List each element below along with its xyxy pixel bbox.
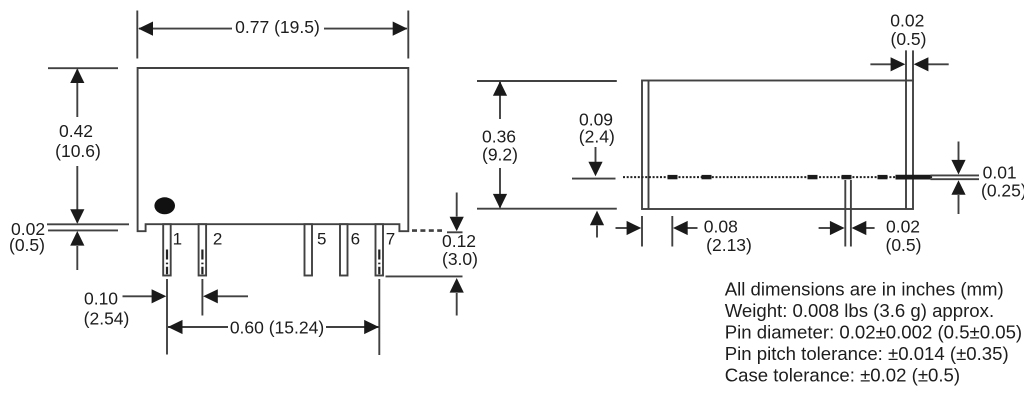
- dim 0.60 right arrow: [364, 320, 379, 334]
- svg-text:(0.5): (0.5): [891, 29, 927, 49]
- side view right wall outer extension: [912, 50, 914, 80]
- svg-text:(0.25): (0.25): [981, 181, 1024, 201]
- dim 0.08 right-pointing arrow: [616, 227, 628, 229]
- dim 0.02 top dimension line: [870, 63, 948, 65]
- front view body outline: [138, 68, 409, 231]
- dim 0.36 down arrow: [493, 194, 507, 209]
- pin 1 extension line: [166, 279, 168, 355]
- svg-text:0.02: 0.02: [890, 11, 924, 31]
- svg-text:(10.6): (10.6): [55, 141, 101, 161]
- dim 0.09 up arrow: [596, 226, 598, 238]
- side view body outline: [642, 81, 913, 210]
- side view protruding pin: [896, 175, 931, 180]
- dim 0.08 left extension line: [641, 216, 643, 247]
- pin 5: [305, 224, 313, 275]
- dim 0.08 pin extension line: [671, 216, 673, 247]
- dim 0.42 top extension line: [48, 67, 118, 69]
- pin 6: [340, 224, 348, 275]
- svg-text:0.12: 0.12: [442, 231, 476, 251]
- dim 0.02 bottom right-pointing arrow: [819, 227, 831, 229]
- svg-text:(2.4): (2.4): [579, 127, 615, 147]
- dim 0.77 right arrow: [393, 22, 408, 36]
- dim 0.02 bottom pin edge extension lines: [845, 180, 851, 247]
- svg-text:2: 2: [213, 229, 222, 248]
- svg-text:0.01: 0.01: [983, 162, 1017, 182]
- dim 0.12 up arrow: [456, 293, 458, 316]
- svg-text:All dimensions are in inches (: All dimensions are in inches (mm): [725, 279, 1004, 300]
- dim 0.02 top right-pointing arrow: [891, 57, 906, 71]
- pin 1 centerline: [166, 250, 168, 275]
- dim 0.77 extension lines: [137, 11, 408, 59]
- dim 0.10 left-pointing arrow: [217, 295, 248, 297]
- pin 1 body marker dot: [154, 197, 175, 214]
- dim 0.02 top left-pointing arrow: [914, 57, 929, 71]
- dim 0.60 dimension line: [168, 326, 379, 328]
- dim 0.08 left-pointing arrow: [688, 227, 698, 229]
- dim 0.60 left arrow: [168, 320, 183, 334]
- pin bottom extension line: [386, 275, 463, 277]
- svg-text:Pin diameter: 0.02±0.002 (0.5±: Pin diameter: 0.02±0.002 (0.5±0.05): [725, 322, 1022, 343]
- svg-text:7: 7: [386, 229, 395, 248]
- pin 7: [376, 224, 384, 275]
- svg-text:(3.0): (3.0): [442, 249, 478, 269]
- svg-text:(2.54): (2.54): [84, 308, 130, 328]
- svg-text:Pin pitch tolerance: ±0.014 (±: Pin pitch tolerance: ±0.014 (±0.35): [725, 343, 1009, 364]
- dim 0.01 down arrow: [958, 142, 960, 161]
- side view pin blocks: [668, 175, 888, 179]
- dim 0.09 down arrow: [595, 147, 597, 162]
- dim 0.09 pin-level tick line: [572, 178, 616, 180]
- pin 2: [199, 224, 207, 275]
- svg-text:0.60 (15.24): 0.60 (15.24): [230, 317, 324, 337]
- dim 0.02 left up arrow: [76, 246, 78, 270]
- dim 0.12 down arrow: [456, 193, 458, 217]
- dim 0.01 up arrow: [958, 195, 960, 214]
- svg-text:(2.13): (2.13): [706, 235, 752, 255]
- pin 7 extension line: [378, 279, 380, 355]
- svg-text:0.42: 0.42: [59, 121, 93, 141]
- dim 0.12 top tick line: [447, 231, 463, 233]
- dim 0.42 up arrow: [70, 68, 84, 83]
- svg-text:0.36: 0.36: [482, 127, 516, 147]
- svg-text:(9.2): (9.2): [482, 145, 518, 165]
- svg-text:0.02: 0.02: [886, 217, 920, 237]
- pin 2 extension line: [201, 279, 203, 316]
- pin thickness extension lines: [931, 175, 980, 179]
- pin 7 centerline: [378, 250, 380, 275]
- svg-text:5: 5: [317, 229, 326, 248]
- dim 0.77 left arrow: [138, 22, 153, 36]
- dim 0.42 down arrow: [70, 209, 84, 224]
- side view inner right wall line: [905, 50, 907, 209]
- svg-text:6: 6: [351, 229, 360, 248]
- dim 0.10 right-pointing arrow: [123, 295, 153, 297]
- svg-text:1: 1: [173, 229, 182, 248]
- pin 1: [163, 224, 171, 275]
- pin 2 centerline: [201, 250, 203, 275]
- svg-text:(0.5): (0.5): [886, 235, 922, 255]
- dim 0.36 dimension line: [499, 82, 501, 208]
- svg-text:Weight: 0.008 lbs (3.6 g) appr: Weight: 0.008 lbs (3.6 g) approx.: [725, 300, 994, 321]
- svg-text:0.08: 0.08: [704, 217, 738, 237]
- dim 0.02 left extension lines: [47, 224, 129, 230]
- side view inner left wall line: [648, 81, 650, 210]
- dim 0.12 dashed leader: [412, 229, 442, 232]
- dim 0.02 bottom left-pointing arrow: [866, 227, 875, 229]
- svg-text:(0.5): (0.5): [9, 235, 45, 255]
- notes text block: [725, 279, 1022, 386]
- dim 0.36 up arrow: [493, 81, 507, 96]
- dim 0.36 extension lines: [477, 81, 617, 209]
- svg-text:Case tolerance: ±0.02 (±0.5): Case tolerance: ±0.02 (±0.5): [725, 365, 960, 386]
- dim 0.42 dimension line: [76, 70, 78, 223]
- svg-text:0.77 (19.5): 0.77 (19.5): [235, 17, 320, 37]
- dim 0.77 dimension line: [139, 28, 407, 30]
- side view pin centerline dotted: [623, 176, 933, 178]
